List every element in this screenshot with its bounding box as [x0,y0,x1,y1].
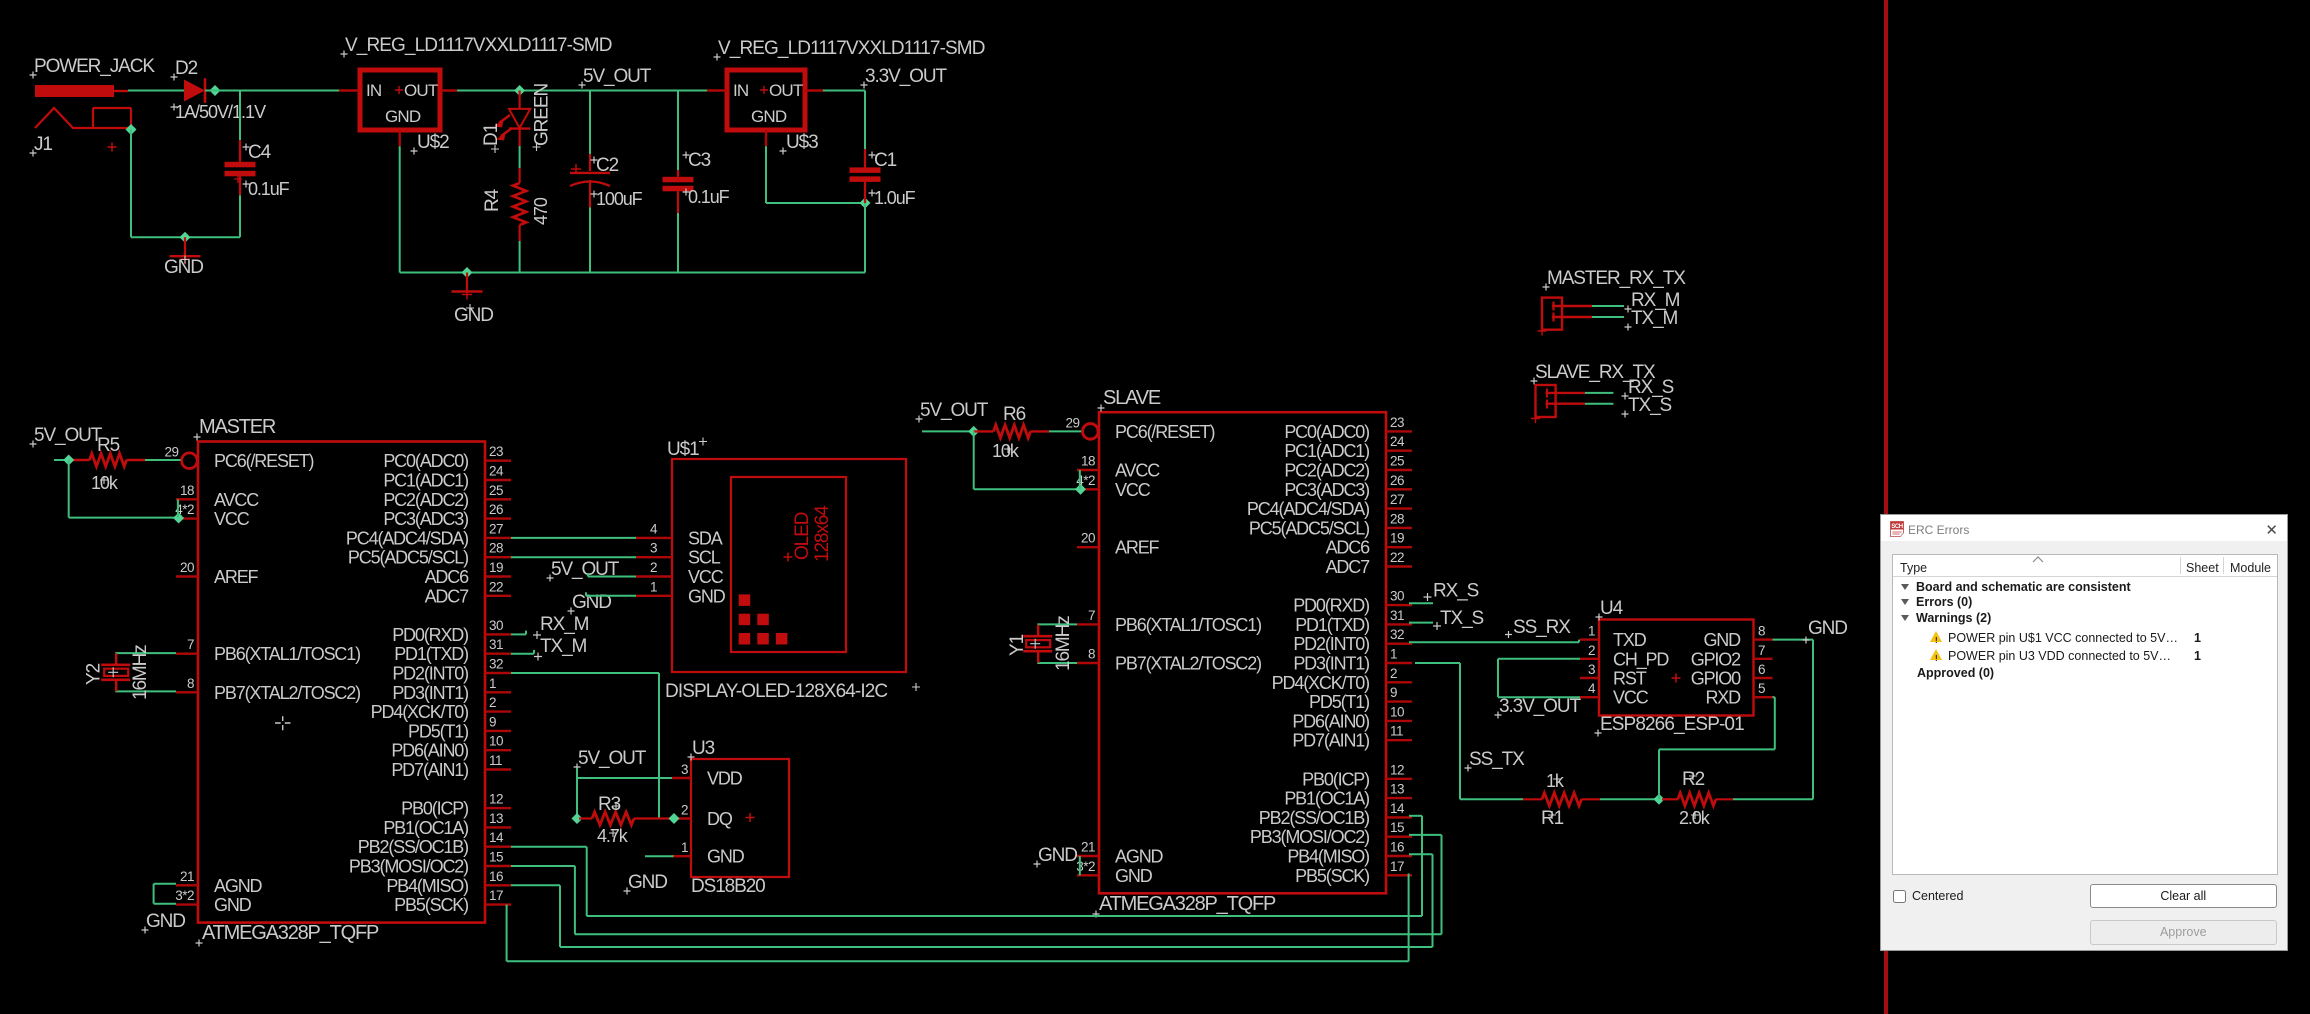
svg-text:RST: RST [1613,669,1647,689]
svg-text:21: 21 [180,869,194,884]
svg-text:PC6(/RESET): PC6(/RESET) [1115,422,1215,442]
svg-text:PC2(ADC2): PC2(ADC2) [1284,461,1369,481]
svg-text:GND: GND [1115,866,1153,886]
svg-text:20: 20 [1081,531,1095,546]
svg-text:D1: D1 [481,123,502,146]
svg-text:ATMEGA328P_TQFP: ATMEGA328P_TQFP [1099,893,1276,915]
svg-text:ADC6: ADC6 [425,567,470,587]
svg-text:10k: 10k [91,473,119,493]
svg-text:14: 14 [489,830,504,845]
svg-text:1A/50V/1.1V: 1A/50V/1.1V [175,102,266,122]
svg-text:32: 32 [1390,627,1404,642]
svg-text:OLED: OLED [792,512,813,560]
svg-text:11: 11 [489,753,502,768]
svg-text:PC3(ADC3): PC3(ADC3) [383,509,468,529]
svg-text:MASTER: MASTER [199,416,276,438]
svg-text:SCH: SCH [1891,524,1902,530]
svg-text:U3: U3 [692,738,715,759]
svg-text:PC0(ADC0): PC0(ADC0) [1284,422,1369,442]
svg-text:AVCC: AVCC [1115,461,1160,481]
svg-text:2: 2 [489,695,496,710]
svg-text:16: 16 [1390,840,1404,855]
svg-text:PB0(ICP): PB0(ICP) [1302,769,1369,789]
svg-text:PD2(INT0): PD2(INT0) [392,664,468,684]
svg-text:PD2(INT0): PD2(INT0) [1293,634,1369,654]
svg-text:25: 25 [1390,454,1404,469]
svg-text:RX_M: RX_M [540,614,589,635]
svg-text:GREEN: GREEN [532,84,553,146]
svg-text:1: 1 [681,840,688,855]
svg-text:PC0(ADC0): PC0(ADC0) [383,451,468,471]
svg-text:PB2(SS/OC1B): PB2(SS/OC1B) [358,837,468,857]
svg-text:8: 8 [1088,647,1095,662]
svg-text:28: 28 [489,541,503,556]
svg-text:3.3V_OUT: 3.3V_OUT [1499,696,1581,717]
svg-text:100uF: 100uF [596,189,643,209]
svg-text:23: 23 [1390,415,1404,430]
svg-text:VCC: VCC [688,567,724,587]
svg-text:PB4(MISO): PB4(MISO) [386,876,468,896]
svg-text:2: 2 [681,803,688,818]
svg-text:PC5(ADC5/SCL): PC5(ADC5/SCL) [1249,518,1369,538]
svg-text:ATMEGA328P_TQFP: ATMEGA328P_TQFP [202,922,379,944]
svg-text:C2: C2 [596,155,619,176]
svg-text:VCC: VCC [1115,480,1151,500]
svg-text:4: 4 [1588,681,1596,696]
svg-text:23: 23 [489,444,503,459]
svg-text:PD0(RXD): PD0(RXD) [392,625,468,645]
svg-text:7: 7 [1758,643,1765,658]
svg-text:PC6(/RESET): PC6(/RESET) [214,451,314,471]
svg-text:4: 4 [650,521,658,536]
svg-text:TX_S: TX_S [1440,608,1484,629]
svg-text:POWER_JACK: POWER_JACK [34,56,155,77]
svg-text:PB5(SCK): PB5(SCK) [394,895,468,915]
svg-text:13: 13 [489,811,503,826]
svg-text:TX_M: TX_M [1631,308,1678,329]
svg-text:PB6(XTAL1/TOSC1): PB6(XTAL1/TOSC1) [1115,615,1261,635]
svg-text:1.0uF: 1.0uF [874,188,916,208]
svg-text:U4: U4 [1600,598,1624,619]
svg-text:SS_TX: SS_TX [1469,749,1525,770]
svg-text:5V_OUT: 5V_OUT [583,66,652,87]
svg-text:7: 7 [1088,608,1095,623]
svg-text:PB1(OC1A): PB1(OC1A) [383,818,468,838]
svg-text:V_REG_LD1117VXXLD1117-SMD: V_REG_LD1117VXXLD1117-SMD [718,38,985,59]
svg-text:GND: GND [751,107,787,126]
svg-text:PC1(ADC1): PC1(ADC1) [383,471,468,491]
svg-text:AREF: AREF [1115,538,1160,558]
svg-text:16: 16 [489,869,503,884]
svg-text:J1: J1 [34,134,52,155]
svg-text:5V_OUT: 5V_OUT [578,748,647,769]
svg-text:PB6(XTAL1/TOSC1): PB6(XTAL1/TOSC1) [214,644,360,664]
svg-text:8: 8 [1758,624,1765,639]
svg-text:VCC: VCC [214,509,250,529]
svg-text:PD6(AIN0): PD6(AIN0) [1292,711,1369,731]
svg-text:GND: GND [707,847,745,867]
svg-text:10k: 10k [992,441,1020,461]
svg-text:PB0(ICP): PB0(ICP) [401,799,468,819]
svg-text:OUT: OUT [404,81,438,100]
svg-text:1: 1 [489,676,496,691]
svg-text:16MHz: 16MHz [130,645,151,700]
svg-text:24: 24 [1390,434,1405,449]
svg-text:TX_M: TX_M [540,636,587,657]
svg-text:GND: GND [1038,845,1077,866]
svg-text:29: 29 [1065,415,1079,430]
svg-text:1: 1 [1390,647,1397,662]
svg-text:GND: GND [164,257,203,278]
svg-text:14: 14 [1390,801,1405,816]
svg-text:24: 24 [489,464,504,479]
svg-text:ESP8266_ESP-01: ESP8266_ESP-01 [1600,714,1744,735]
svg-text:SS_RX: SS_RX [1513,617,1571,638]
svg-text:26: 26 [1390,473,1404,488]
svg-text:3: 3 [650,541,657,556]
svg-text:VDD: VDD [707,769,743,789]
svg-text:3: 3 [681,762,688,777]
svg-text:1k: 1k [1546,771,1565,791]
svg-text:31: 31 [489,637,503,652]
svg-text:9: 9 [489,714,496,729]
svg-text:10: 10 [489,734,503,749]
svg-text:27: 27 [1390,492,1404,507]
svg-text:PD1(TXD): PD1(TXD) [1295,615,1369,635]
svg-text:19: 19 [489,560,503,575]
svg-text:27: 27 [489,521,503,536]
svg-text:R5: R5 [97,435,120,456]
svg-text:9: 9 [1390,685,1397,700]
svg-text:TXD: TXD [1613,630,1647,650]
svg-text:C1: C1 [874,150,897,171]
svg-text:PC5(ADC5/SCL): PC5(ADC5/SCL) [348,548,468,568]
svg-text:PB7(XTAL2/TOSC2): PB7(XTAL2/TOSC2) [1115,654,1261,674]
svg-text:ADC7: ADC7 [425,586,470,606]
svg-text:PB5(SCK): PB5(SCK) [1295,866,1369,886]
svg-text:VCC: VCC [1613,688,1649,708]
svg-text:PB3(MOSI/OC2): PB3(MOSI/OC2) [349,857,468,877]
svg-text:0.1uF: 0.1uF [248,179,290,199]
svg-text:AREF: AREF [214,567,259,587]
svg-text:PB4(MISO): PB4(MISO) [1287,847,1369,867]
svg-text:SLAVE: SLAVE [1103,387,1161,409]
svg-text:AVCC: AVCC [214,490,259,510]
svg-text:R6: R6 [1003,404,1026,425]
svg-text:U$1: U$1 [667,439,699,460]
svg-text:2: 2 [1390,666,1397,681]
svg-text:12: 12 [489,792,503,807]
svg-text:PD7(AIN1): PD7(AIN1) [391,760,468,780]
svg-text:R3: R3 [598,794,621,815]
svg-text:PD1(TXD): PD1(TXD) [394,644,468,664]
svg-text:C3: C3 [688,150,711,171]
svg-text:GND: GND [628,872,667,893]
svg-text:28: 28 [1390,511,1404,526]
svg-text:5V_OUT: 5V_OUT [920,400,989,421]
svg-text:AGND: AGND [1115,847,1164,867]
svg-text:PB7(XTAL2/TOSC2): PB7(XTAL2/TOSC2) [214,683,360,703]
svg-text:GND: GND [688,586,726,606]
svg-text:20: 20 [180,560,194,575]
svg-text:DQ: DQ [707,809,733,829]
svg-text:Y1: Y1 [1007,634,1028,656]
svg-text:PC1(ADC1): PC1(ADC1) [1284,441,1369,461]
svg-text:RXD: RXD [1705,688,1741,708]
svg-text:PD5(T1): PD5(T1) [408,721,468,741]
svg-text:AGND: AGND [214,876,263,896]
svg-text:TX_S: TX_S [1628,395,1672,416]
svg-text:2: 2 [1588,643,1595,658]
svg-text:GPIO2: GPIO2 [1691,649,1741,669]
svg-text:ADC6: ADC6 [1326,538,1371,558]
svg-text:U$2: U$2 [417,132,449,153]
svg-text:ADC7: ADC7 [1326,557,1371,577]
svg-text:RX_S: RX_S [1433,581,1479,602]
svg-text:3*2: 3*2 [175,888,194,903]
svg-text:25: 25 [489,483,503,498]
svg-text:13: 13 [1390,782,1404,797]
svg-text:17: 17 [1390,859,1404,874]
svg-text:PC3(ADC3): PC3(ADC3) [1284,480,1369,500]
svg-text:16MHz: 16MHz [1053,616,1074,671]
svg-text:DS18B20: DS18B20 [691,876,765,897]
svg-text:OUT: OUT [769,81,803,100]
svg-text:19: 19 [1390,531,1404,546]
svg-text:SDA: SDA [688,528,723,548]
svg-text:17: 17 [489,888,503,903]
svg-text:21: 21 [1081,840,1095,855]
svg-text:PC4(ADC4/SDA): PC4(ADC4/SDA) [1247,499,1369,519]
svg-text:32: 32 [489,657,503,672]
svg-text:128x64: 128x64 [812,505,833,562]
svg-text:V_REG_LD1117VXXLD1117-SMD: V_REG_LD1117VXXLD1117-SMD [345,35,612,56]
svg-text:PB2(SS/OC1B): PB2(SS/OC1B) [1259,808,1369,828]
svg-text:PD3(INT1): PD3(INT1) [1293,654,1369,674]
svg-text:PC4(ADC4/SDA): PC4(ADC4/SDA) [346,528,468,548]
svg-text:PD7(AIN1): PD7(AIN1) [1292,731,1369,751]
svg-text:10: 10 [1390,704,1404,719]
svg-text:PD0(RXD): PD0(RXD) [1293,596,1369,616]
svg-text:31: 31 [1390,608,1404,623]
svg-text:1: 1 [650,579,657,594]
svg-text:PC2(ADC2): PC2(ADC2) [383,490,468,510]
svg-text:18: 18 [1081,454,1095,469]
svg-text:PD5(T1): PD5(T1) [1309,692,1369,712]
svg-text:CH_PD: CH_PD [1613,649,1669,670]
svg-text:GND: GND [214,895,252,915]
svg-text:22: 22 [1390,550,1404,565]
svg-text:PD3(INT1): PD3(INT1) [392,683,468,703]
svg-text:GND: GND [385,107,421,126]
svg-text:30: 30 [1390,589,1404,604]
svg-text:6: 6 [1758,662,1765,677]
svg-text:DISPLAY-OLED-128X64-I2C: DISPLAY-OLED-128X64-I2C [665,681,887,702]
svg-text:PB3(MOSI/OC2): PB3(MOSI/OC2) [1250,827,1369,847]
svg-text:GND: GND [1703,630,1741,650]
svg-text:MASTER_RX_TX: MASTER_RX_TX [1547,268,1686,289]
svg-text:18: 18 [180,483,194,498]
svg-text:12: 12 [1390,762,1404,777]
svg-text:470: 470 [531,197,551,225]
svg-text:D2: D2 [175,58,198,79]
svg-text:3.3V_OUT: 3.3V_OUT [865,66,947,87]
svg-text:8: 8 [187,676,194,691]
svg-text:0.1uF: 0.1uF [688,187,730,207]
svg-text:29: 29 [164,445,178,460]
svg-text:1: 1 [1588,624,1595,639]
svg-text:PD6(AIN0): PD6(AIN0) [391,741,468,761]
svg-text:PB1(OC1A): PB1(OC1A) [1284,789,1369,809]
svg-text:7: 7 [187,637,194,652]
svg-text:5: 5 [1758,681,1765,696]
svg-text:11: 11 [1390,724,1403,739]
svg-text:15: 15 [1390,820,1404,835]
svg-text:3: 3 [1588,662,1595,677]
svg-text:SCL: SCL [688,548,721,568]
svg-text:5V_OUT: 5V_OUT [34,425,103,446]
svg-text:15: 15 [489,850,503,865]
svg-text:C4: C4 [248,142,272,163]
svg-text:GND: GND [1808,618,1847,639]
svg-text:IN: IN [366,81,381,100]
svg-text:22: 22 [489,579,503,594]
svg-text:U$3: U$3 [786,132,818,153]
svg-text:26: 26 [489,502,503,517]
svg-text:Y2: Y2 [84,663,105,685]
svg-text:2: 2 [650,560,657,575]
svg-text:PD4(XCK/T0): PD4(XCK/T0) [1272,673,1370,693]
svg-text:GPIO0: GPIO0 [1691,669,1741,689]
svg-text:IN: IN [733,81,748,100]
svg-text:PD4(XCK/T0): PD4(XCK/T0) [371,702,469,722]
svg-text:GND: GND [146,911,185,932]
svg-text:30: 30 [489,618,503,633]
svg-text:R4: R4 [482,188,503,212]
